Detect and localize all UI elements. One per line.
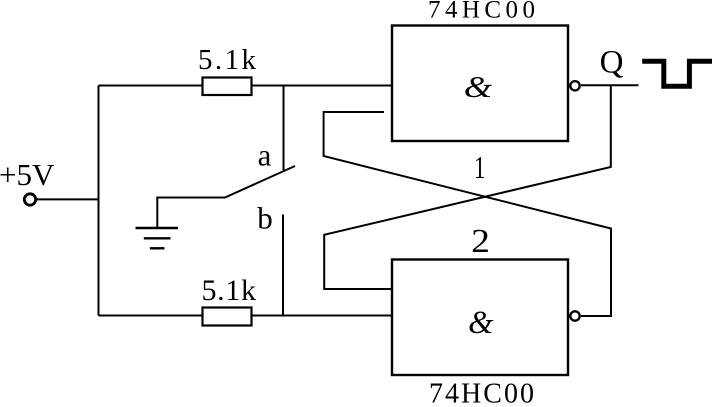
svg-text:74HC00: 74HC00 [429,378,534,407]
svg-text:5.1k: 5.1k [201,274,256,307]
svg-text:2: 2 [471,222,490,260]
svg-text:Q: Q [600,45,624,81]
svg-text:74HC00: 74HC00 [428,0,535,24]
svg-text:b: b [257,201,273,236]
svg-text:&: & [464,71,493,105]
svg-text:+5V: +5V [0,157,55,192]
svg-text:1: 1 [474,150,485,184]
svg-text:a: a [258,138,272,173]
svg-text:5.1k: 5.1k [198,44,257,76]
svg-text:&: & [468,305,494,341]
